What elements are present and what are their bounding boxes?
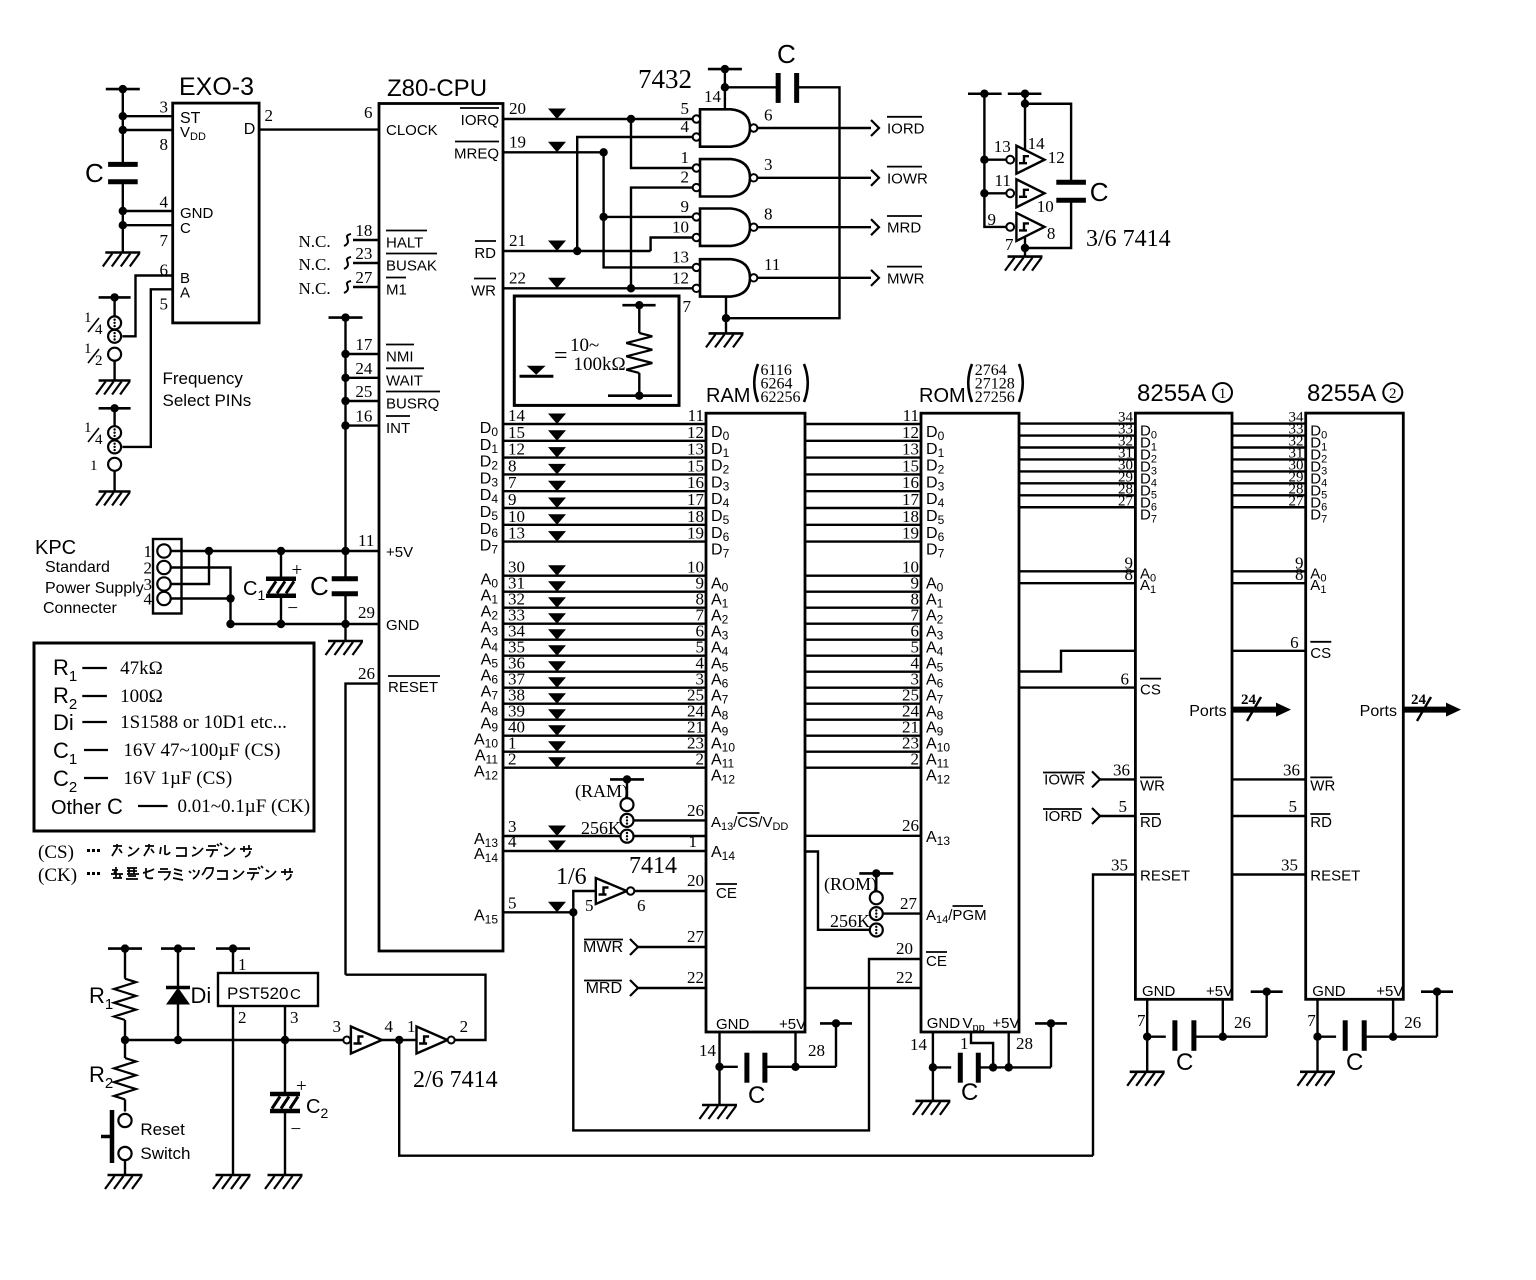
svg-text:22: 22: [509, 269, 526, 288]
wire connector pin3 to +5V rail: [171, 551, 209, 584]
svg-text:26: 26: [1404, 1013, 1421, 1032]
wire data bus D5 Z80 to RAM: [503, 507, 706, 509]
wire ROM GND pin 14 to ground: [932, 1032, 934, 1101]
wire jumper to ground lower: [113, 471, 115, 492]
svg-text:CS: CS: [1140, 682, 1161, 699]
wire BUSRQ pin 25: [346, 400, 380, 402]
wire IORQ branch vertical to gate2 input 1: [631, 119, 693, 168]
capacitor C ceramic decoupling at Z80: [332, 576, 358, 581]
svg-text:8: 8: [160, 135, 169, 154]
svg-text:A: A: [180, 285, 190, 302]
svg-text:1: 1: [238, 955, 247, 974]
svg-text:4: 4: [95, 322, 103, 338]
+5V stub 7432 pin 14: [708, 68, 742, 71]
svg-text:7: 7: [1005, 235, 1014, 254]
wire EXO-3 D output to Z80 CLOCK pin 6: [259, 128, 379, 130]
wire RD pin 21: [503, 250, 651, 252]
wire data bus D7 RAM to ROM: [805, 540, 921, 542]
svg-text:M1: M1: [386, 282, 407, 299]
svg-text:4: 4: [681, 117, 690, 136]
svg-text:11: 11: [764, 255, 780, 274]
svg-text:19: 19: [687, 524, 704, 543]
svg-text:+5V: +5V: [779, 1016, 806, 1033]
svg-text:36: 36: [1283, 760, 1300, 779]
svg-text:12: 12: [672, 268, 689, 287]
svg-text:C: C: [107, 794, 123, 819]
svg-text:14: 14: [1028, 134, 1046, 153]
wire address bus A3 RAM to ROM: [805, 623, 921, 625]
svg-text:Switch: Switch: [140, 1144, 190, 1163]
wire data bus D5 RAM to ROM: [805, 507, 921, 509]
svg-text:24: 24: [1411, 692, 1427, 708]
svg-text:7: 7: [1307, 1011, 1316, 1030]
wire data D0 ROM to 8255A-1: [1019, 422, 1135, 424]
svg-text:BUSRQ: BUSRQ: [386, 396, 439, 413]
circled 1 designator: [1213, 383, 1232, 402]
ground below lower frequency select: [99, 490, 131, 493]
wire Z80 RESET pin 26 to reset circuit: [346, 684, 380, 975]
wire inverter output to RAM CE pin 20: [634, 890, 706, 892]
wire A13 Z80 pin 3 to jumper and ROM pin 26: [503, 835, 621, 837]
legend resistor symbol: [622, 304, 655, 307]
svg-text:A14/PGM: A14/PGM: [926, 907, 987, 926]
wire ROM +5V pin 28: [1008, 1032, 1010, 1067]
svg-text:3: 3: [160, 98, 169, 117]
svg-text:6: 6: [1290, 633, 1299, 652]
capacitor C1 electrolytic on +5V rail: [280, 551, 282, 579]
wire data D2 ROM to 8255A-1: [1019, 446, 1135, 448]
svg-text:2: 2: [508, 750, 517, 769]
wire 7432 pin 14 power: [724, 69, 726, 109]
frequency select jumper circles lower group: [108, 426, 121, 439]
wire data D2 8255A-1 to 8255A-2: [1232, 446, 1306, 448]
svg-text:10: 10: [672, 218, 689, 237]
svg-text:5: 5: [585, 896, 594, 915]
wire RESET to 8255A-1 pin 35: [1093, 875, 1135, 1156]
wire data D6 ROM to 8255A-1: [1019, 494, 1135, 496]
ground below C2: [268, 1174, 303, 1177]
wire spare inverter inputs rail: [984, 94, 1006, 227]
capacitor C at 8255A-1: [1147, 1035, 1166, 1037]
svg-text:35: 35: [1111, 856, 1128, 875]
wire data D5 ROM to 8255A-1: [1019, 482, 1135, 484]
ground below Z80 GND rail: [328, 640, 363, 643]
inverter U10b 2/6 7414 second: [417, 1027, 448, 1054]
svg-text:WR: WR: [1310, 777, 1335, 794]
wire data bus D3 Z80 to RAM: [503, 473, 706, 475]
svg-text:MREQ: MREQ: [454, 146, 499, 163]
svg-text:RD: RD: [1310, 814, 1332, 831]
wire address bus A3 Z80 to RAM: [503, 623, 706, 625]
+5V stub above EXO-3 decoupling: [106, 88, 140, 91]
wire RD branch step to gate3 input 10: [651, 238, 693, 252]
svg-text:RD: RD: [1140, 814, 1162, 831]
wire stub to jumper circle lower: [113, 408, 115, 426]
svg-text:N.C.: N.C.: [299, 232, 331, 251]
reset supervisor PST520C box: [218, 973, 318, 1006]
wire reset net to 8255 RESET long line: [399, 1040, 1093, 1156]
(RAM) +5V stub jumper: [610, 778, 644, 781]
+5V stub above diode Di: [161, 947, 195, 950]
wire switch to ground: [124, 1160, 126, 1175]
wire WAIT pin 24: [346, 377, 380, 379]
svg-text:BUSAK: BUSAK: [386, 258, 437, 275]
svg-text:WR: WR: [471, 283, 496, 300]
svg-text:2: 2: [681, 168, 690, 187]
svg-text:1: 1: [84, 341, 92, 357]
wire address bus A9 Z80 to RAM: [503, 719, 706, 721]
jumper circles RAM A13/CS select: [621, 798, 634, 811]
wire data bus D1 RAM to ROM: [805, 440, 921, 442]
ground at 7432 pin 7: [709, 332, 744, 335]
svg-text:4: 4: [144, 590, 153, 609]
svg-text:62256: 62256: [761, 389, 801, 406]
resistor R1: [124, 949, 126, 979]
ground at 3/6 7414: [1008, 255, 1043, 258]
wire RAM +5V pin 28: [794, 1032, 796, 1067]
svg-text:RESET: RESET: [388, 679, 438, 696]
svg-text:24: 24: [1241, 692, 1257, 708]
svg-text:MWR: MWR: [887, 270, 925, 287]
capacitor C at 3/6 7414: [1056, 180, 1086, 185]
Z80 BUSAK pin 23 N.C.: [353, 262, 379, 264]
svg-text:14: 14: [699, 1041, 717, 1060]
or-gate U3a 7432 gate 1: [700, 109, 750, 146]
svg-text:GND: GND: [927, 1015, 961, 1032]
wire NMI pin 17: [346, 353, 380, 355]
svg-text:24: 24: [355, 359, 373, 378]
svg-text:C: C: [310, 571, 329, 601]
svg-text:26: 26: [687, 801, 704, 820]
wire data bus D4 Z80 to RAM: [503, 490, 706, 492]
wire address bus A8 RAM to ROM: [805, 703, 921, 705]
wire address bus A1 Z80 to RAM: [503, 591, 706, 593]
svg-text:22: 22: [687, 968, 704, 987]
wire connector pin2 to GND rail: [171, 568, 231, 625]
svg-text:20: 20: [896, 939, 913, 958]
wire address bus A11 RAM to ROM: [805, 751, 921, 753]
peripheral U7 8255A 1 box: [1135, 413, 1232, 999]
svg-text:3: 3: [764, 155, 773, 174]
circled 2 designator: [1383, 383, 1402, 402]
svg-text:2: 2: [1389, 386, 1397, 402]
wire data bus D3 RAM to ROM: [805, 473, 921, 475]
wire address bus A10 Z80 to RAM: [503, 735, 706, 737]
katakana ceramic kondensa strokes: [111, 866, 293, 880]
wire RAM pin 26 A13/CS/VDD: [633, 819, 706, 821]
svg-text:26: 26: [1234, 1013, 1251, 1032]
wire A7 net to 8255A-1 CS pin 6: [1019, 686, 1135, 688]
svg-text:HALT: HALT: [386, 235, 423, 252]
svg-text:RD: RD: [474, 245, 496, 262]
wire A14 elbow RAM to ROM jumper: [805, 852, 870, 930]
wire RAM GND pin 14 to ground: [718, 1032, 720, 1105]
svg-text:1S1588 or 10D1 etc...: 1S1588 or 10D1 etc...: [120, 712, 287, 733]
svg-text:27256: 27256: [975, 389, 1015, 406]
wire 7432 capacitor to pin 7 ground: [726, 87, 840, 318]
svg-text:N.C.: N.C.: [299, 279, 331, 298]
wire data bus D4 RAM to ROM: [805, 490, 921, 492]
wire data D5 8255A-1 to 8255A-2: [1232, 482, 1306, 484]
wire 8255A-2 +5V pin 26: [1392, 999, 1394, 1036]
svg-text:N.C.: N.C.: [299, 255, 331, 274]
svg-text:5: 5: [160, 295, 169, 314]
wire EXO-3 pin B to frequency select jumper: [122, 276, 172, 337]
svg-text:(CS): (CS): [38, 842, 74, 863]
wire address bus A0 Z80 to RAM: [503, 575, 706, 577]
capacitor C at EXO-3: [108, 162, 138, 167]
wire address bus A8 Z80 to RAM: [503, 703, 706, 705]
wire address bus A12 RAM to ROM: [805, 767, 921, 769]
svg-text:Connecter: Connecter: [43, 600, 117, 617]
wire address bus A1 RAM to ROM: [805, 591, 921, 593]
wire jumper to ground upper: [113, 361, 115, 381]
svg-text:CE: CE: [926, 953, 947, 970]
+5V stub right 3/6 7414: [1008, 92, 1042, 95]
wire PST520C pin 2 to ground: [232, 1006, 234, 1175]
or-gate U3d 7432 gate 4: [700, 259, 750, 296]
wire address bus A9 RAM to ROM: [805, 719, 921, 721]
Z80 M1 pin 27 N.C.: [353, 286, 379, 288]
svg-text:20: 20: [687, 871, 704, 890]
rom U6 ROM box: [921, 413, 1019, 1032]
svg-text:4: 4: [95, 432, 103, 448]
wire data bus D2 Z80 to RAM: [503, 456, 706, 458]
inverter U9b 7414 spare 11-10: [1016, 179, 1044, 207]
svg-text:27: 27: [355, 268, 373, 287]
wire data D4 8255A-1 to 8255A-2: [1232, 470, 1306, 472]
svg-text:28: 28: [1016, 1034, 1033, 1053]
svg-text:1: 1: [84, 310, 92, 326]
wire data D3 ROM to 8255A-1: [1019, 458, 1135, 460]
wire +5V rail connector pin1 to Z80 pin 11: [171, 550, 379, 552]
wire ROM Vpp pin 1 to +5V: [971, 1032, 993, 1067]
wire to 3/6 7414 capacitor: [1025, 104, 1071, 183]
svg-text:−: −: [291, 1119, 302, 1140]
wire WR branch vertical to gate2 input 2: [631, 188, 693, 289]
svg-text:IOWR: IOWR: [887, 170, 928, 187]
svg-text:GND: GND: [1142, 983, 1176, 1000]
wire EXO-3 GND/C pins to ground: [122, 182, 124, 253]
svg-text:19: 19: [509, 133, 526, 152]
+5V stub above lower frequency select group: [99, 407, 131, 410]
svg-text:(ROM): (ROM): [824, 874, 877, 895]
svg-text:CLOCK: CLOCK: [386, 122, 438, 139]
svg-text:11: 11: [995, 171, 1011, 190]
wire address bus A4 RAM to ROM: [805, 639, 921, 641]
svg-text:Ports: Ports: [1189, 703, 1226, 720]
wire A15 Z80 pin 5 to inverter: [503, 911, 573, 913]
wire inverter U9b input 11: [984, 192, 1006, 194]
wire 7414 pin 7 to ground: [1024, 237, 1026, 257]
svg-text:9: 9: [681, 197, 690, 216]
wire address bus A5 Z80 to RAM: [503, 655, 706, 657]
svg-text:28: 28: [808, 1041, 825, 1060]
wire between reset inverters: [382, 1039, 417, 1041]
svg-text:17: 17: [355, 335, 373, 354]
svg-text:21: 21: [509, 231, 526, 250]
svg-text:RAM: RAM: [706, 385, 750, 407]
svg-text:1: 1: [84, 420, 92, 436]
wire data D7 ROM to 8255A-1: [1019, 506, 1135, 508]
wire data bus D0 RAM to ROM: [805, 423, 921, 425]
svg-text:NMI: NMI: [386, 349, 414, 366]
+5V stub above NMI pull-up rail: [329, 316, 363, 319]
svg-text:1: 1: [90, 458, 98, 474]
ground below reset switch: [108, 1174, 143, 1177]
svg-text:7414: 7414: [629, 853, 677, 879]
svg-text:19: 19: [902, 524, 919, 543]
svg-text:WR: WR: [1140, 777, 1165, 794]
svg-text:256K: 256K: [830, 911, 870, 931]
ground below PST520C pin 2: [216, 1174, 251, 1177]
ROM type stack 2764 27128 27256: [968, 364, 972, 402]
wire IORQ pin 20 to 7432 gate1 input 5: [503, 118, 693, 120]
svg-text:CS: CS: [1310, 645, 1331, 662]
svg-text:C: C: [290, 986, 301, 1003]
wire A0 ROM to 8255A-1 and 8255A-2: [1019, 570, 1135, 572]
wire data D0 8255A-1 to 8255A-2: [1232, 422, 1306, 424]
svg-text:Ports: Ports: [1360, 703, 1397, 720]
svg-text:2: 2: [460, 1017, 469, 1036]
wire 7432 gate 1 output to IORD arrow: [757, 127, 871, 129]
svg-text:100Ω: 100Ω: [120, 686, 163, 707]
svg-text:(CK): (CK): [38, 865, 77, 886]
wire MREQ pin 19 to 7432: [503, 151, 604, 153]
wire EXO-3 pin A to frequency select jumper: [122, 289, 172, 447]
svg-text:13: 13: [508, 524, 525, 543]
diode Di: [177, 949, 179, 988]
svg-text:=: =: [554, 343, 568, 369]
svg-text:GND: GND: [1312, 983, 1346, 1000]
wire data bus D2 RAM to ROM: [805, 456, 921, 458]
+5V stub right of RAM: [820, 1022, 852, 1025]
inverter U9a 7414 spare 13-12: [1016, 146, 1044, 174]
wire 7414 pin 14 power: [1024, 94, 1026, 150]
svg-text:29: 29: [358, 603, 375, 622]
wire address bus A12 Z80 to RAM: [503, 767, 706, 769]
svg-text:0.01~0.1µF (CK): 0.01~0.1µF (CK): [178, 796, 311, 817]
svg-text:7: 7: [1137, 1011, 1146, 1030]
+5V stub right of 8255A-1: [1251, 990, 1283, 993]
RAM type stack 6116 6264 62256: [754, 364, 758, 402]
svg-text:9: 9: [988, 210, 997, 229]
wire A15 to ROM CE pin 20 long route: [573, 912, 921, 1130]
capacitor C at ROM bottom: [933, 1066, 951, 1068]
svg-text:10~: 10~: [570, 335, 599, 356]
svg-text:C: C: [1090, 177, 1109, 207]
katakana tantalum kondensa strokes: [112, 843, 252, 857]
oscillator U1 EXO-3 box: [173, 103, 259, 323]
svg-text:RESET: RESET: [1310, 868, 1360, 885]
svg-text:IORD: IORD: [1045, 808, 1083, 825]
svg-text:1: 1: [689, 832, 698, 851]
wire address bus A10 RAM to ROM: [805, 735, 921, 737]
svg-text:C: C: [1346, 1049, 1363, 1076]
wire address bus A2 RAM to ROM: [805, 607, 921, 609]
wire data D6 8255A-1 to 8255A-2: [1232, 494, 1306, 496]
svg-text:GND: GND: [386, 617, 420, 634]
wire 7432 pin 7 to ground: [725, 296, 727, 334]
svg-text:3: 3: [333, 1017, 342, 1036]
svg-text:WAIT: WAIT: [386, 372, 423, 389]
svg-text:13: 13: [672, 247, 689, 266]
wire 7432 gate 2 output to IOWR arrow: [757, 177, 871, 179]
wire 7432 gate 3 output to MRD arrow: [757, 226, 871, 228]
svg-text:7432: 7432: [638, 64, 692, 94]
wire 8255A-1 GND pin 7 to ground: [1146, 999, 1148, 1072]
svg-text:C: C: [748, 1082, 765, 1109]
+5V stub right of ROM: [1035, 1022, 1067, 1025]
wire A6 net step to 8255A-2 CS pin 6: [1019, 651, 1135, 672]
svg-text:26: 26: [902, 816, 919, 835]
capacitor C2 electrolytic: [270, 1092, 300, 1097]
svg-text:6: 6: [1121, 670, 1130, 689]
ground below EXO-3 capacitor: [105, 251, 140, 254]
peripheral U8 8255A 2 box: [1306, 413, 1404, 999]
svg-text:IORQ: IORQ: [461, 112, 499, 129]
+5V stub left 3/6 7414: [968, 92, 1002, 95]
svg-text:MWR: MWR: [583, 939, 623, 956]
svg-text:6: 6: [637, 896, 646, 915]
svg-text:−: −: [287, 598, 298, 619]
svg-text:26: 26: [358, 664, 375, 683]
svg-text:16: 16: [355, 407, 372, 426]
svg-text:+5V: +5V: [1376, 983, 1403, 1000]
svg-text:25: 25: [355, 382, 372, 401]
svg-text:4: 4: [160, 193, 169, 212]
+5V stub above R1: [108, 947, 142, 950]
wire data bus D6 RAM to ROM: [805, 524, 921, 526]
svg-text:C: C: [85, 158, 104, 188]
svg-text:8: 8: [764, 205, 773, 224]
svg-text:1: 1: [407, 1017, 416, 1036]
svg-text:5: 5: [1119, 797, 1128, 816]
KPC connector pins 1-4 circles: [157, 544, 170, 557]
wire data bus D0 Z80 to RAM: [503, 423, 706, 425]
wire 7432 gate 4 output to MWR arrow: [757, 277, 871, 279]
wire 7414 capacitor to pin 7 ground: [1025, 200, 1071, 248]
+5V stub above upper frequency select group: [99, 296, 131, 299]
svg-text:+: +: [292, 560, 303, 581]
wire WR pin 22 to 7432 gate4 input 12: [503, 287, 693, 289]
svg-text:13: 13: [994, 137, 1011, 156]
wire A14 Z80 pin 4 to RAM pin 1 and ROM jumper: [503, 850, 706, 852]
wire ROM pin 27 A14/PGM: [883, 912, 921, 914]
svg-text:IORD: IORD: [887, 121, 925, 138]
wire inverter U9a input 13: [984, 158, 1006, 160]
wire data D3 8255A-1 to 8255A-2: [1232, 458, 1306, 460]
svg-text:1: 1: [681, 148, 690, 167]
wire address bus A0 RAM to ROM: [805, 575, 921, 577]
svg-text:Power Supply: Power Supply: [45, 580, 144, 597]
svg-text:47kΩ: 47kΩ: [120, 658, 163, 679]
wire address bus A11 Z80 to RAM: [503, 751, 706, 753]
svg-text:Di: Di: [191, 983, 212, 1008]
wire stub to jumper circle: [113, 297, 115, 316]
legend box pull-up triangle meaning: [514, 296, 679, 405]
svg-text:2: 2: [95, 353, 103, 369]
capacitor C at 8255A-2: [1318, 1035, 1337, 1037]
wire PST520C pin 3 to reset net: [284, 1006, 286, 1094]
svg-text:3: 3: [290, 1008, 299, 1027]
wire data D4 ROM to 8255A-1: [1019, 470, 1135, 472]
wire GND rail to Z80 pin 29: [231, 623, 380, 625]
svg-text:2: 2: [238, 1008, 247, 1027]
component values legend box: [34, 643, 314, 831]
svg-text:2: 2: [696, 750, 705, 769]
(ROM) +5V stub jumper: [859, 872, 893, 875]
